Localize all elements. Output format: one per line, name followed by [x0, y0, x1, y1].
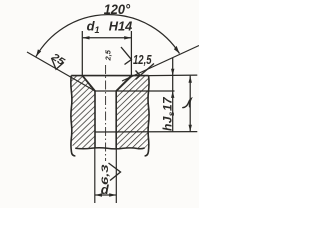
label l: [183, 99, 191, 108]
dim d1 H14 line: [82, 37, 131, 39]
roughness check on top face: [136, 64, 155, 80]
roughness check on left leg: [52, 58, 64, 69]
svg-text:120°: 120°: [104, 2, 131, 17]
dim d1 H14 extension right: [130, 31, 132, 76]
svg-text:H14: H14: [109, 19, 133, 34]
hole right wall extension: [115, 148, 117, 203]
label hJs17: [161, 96, 177, 131]
centerline: [105, 65, 107, 161]
roughness check on d1 extension: [121, 47, 131, 65]
roughness 6,3 vertical: [100, 163, 111, 185]
dim d line: [95, 194, 116, 196]
roughness 25 on left leg: [48, 51, 66, 68]
hatching right block: [116, 76, 148, 149]
bottom face (break line): [75, 148, 144, 149]
hole left wall: [94, 91, 96, 148]
hole left wall extension: [94, 148, 96, 203]
hole depth line + extension right: [95, 131, 197, 133]
dim hJs17 line: [172, 58, 174, 132]
arc arrow left: [36, 49, 41, 56]
chamfer angle leg right: [122, 46, 199, 82]
roughness check on hole wall: [109, 163, 121, 181]
chamfer angle leg left: [27, 52, 95, 91]
arc arrow right: [174, 46, 180, 54]
countersink bottom edge + extension right: [95, 90, 175, 92]
dim l line: [189, 76, 191, 132]
svg-text:2,5: 2,5: [104, 49, 113, 61]
body left edge (break line): [71, 76, 76, 156]
body right edge (break line): [145, 76, 149, 156]
countersink cone right face: [116, 76, 131, 91]
120 degree arc: [36, 15, 180, 57]
svg-text:d: d: [101, 182, 110, 197]
top face extension right: [149, 74, 198, 77]
roughness 2,5 vertical: [104, 49, 113, 61]
hatching left block: [71, 76, 95, 149]
hole right wall: [115, 91, 117, 148]
dim d1 H14 extension left: [81, 31, 83, 76]
svg-text:12,5: 12,5: [133, 52, 152, 67]
body outline: top face: [71, 75, 148, 77]
countersink cone left face: [82, 76, 95, 91]
